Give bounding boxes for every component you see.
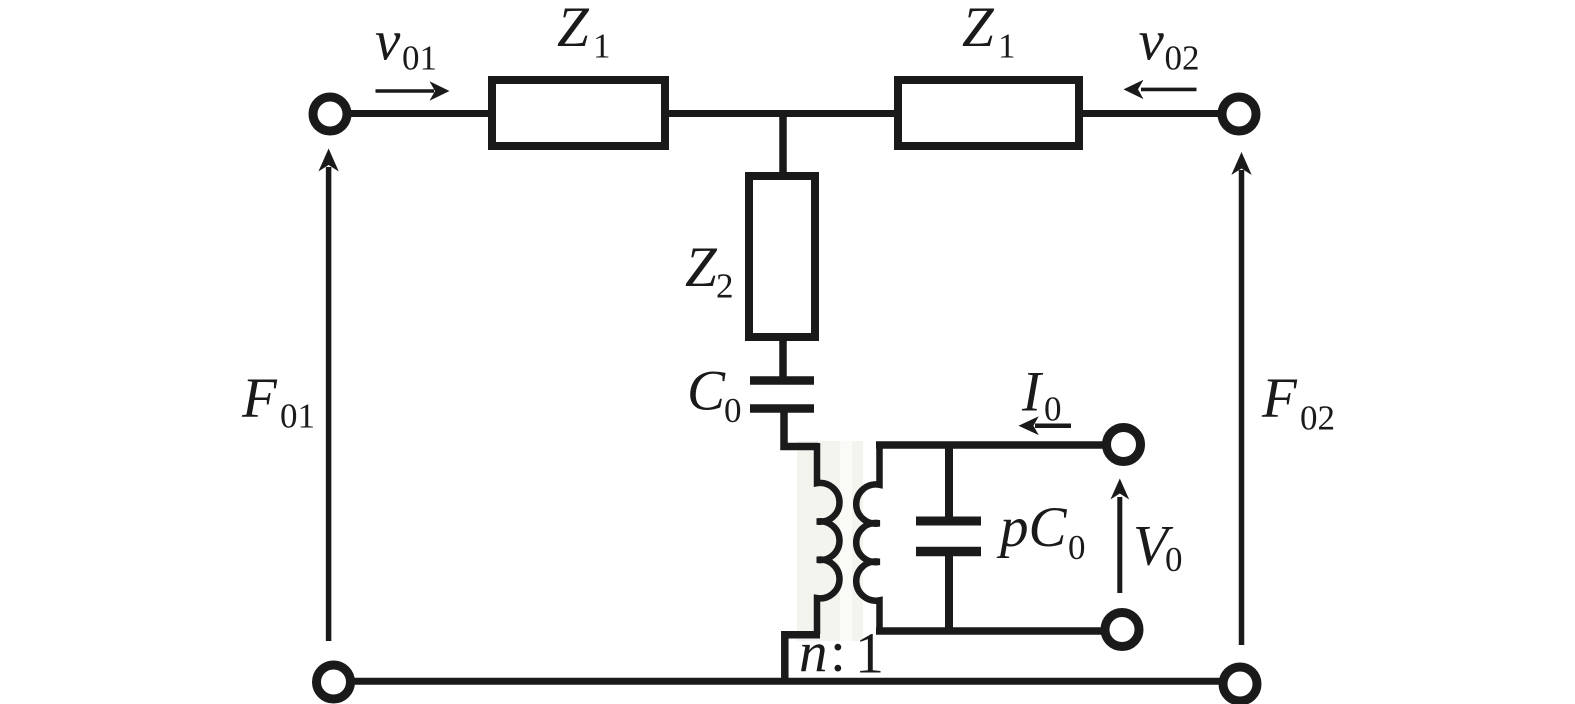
svg-text:C: C: [687, 360, 726, 423]
capacitor pC0 plates: [916, 517, 981, 526]
terminal port1 top: [313, 97, 347, 131]
wire transformer bottom-left leg: [785, 635, 820, 681]
wire C0 to transformer: [784, 406, 818, 447]
terminal port2 top: [1222, 97, 1256, 131]
wire secondary top: [876, 441, 1103, 449]
wire junction to Z2: [779, 114, 787, 179]
arrow v02: [1141, 88, 1197, 92]
svg-text:Z: Z: [557, 0, 590, 59]
svg-text:1: 1: [855, 621, 884, 686]
svg-text:n: n: [799, 622, 828, 685]
svg-text:F: F: [1261, 367, 1298, 430]
svg-text:1: 1: [593, 27, 611, 66]
resistor Z2 box: [749, 176, 815, 337]
wire top-left: [348, 110, 500, 117]
svg-text:0: 0: [724, 391, 742, 430]
svg-text:01: 01: [402, 38, 437, 77]
svg-text:1: 1: [998, 27, 1016, 66]
svg-text:v: v: [375, 9, 401, 72]
svg-text:Z: Z: [962, 0, 995, 59]
arrow F02: [1239, 170, 1245, 645]
svg-text:Z: Z: [685, 236, 718, 299]
svg-text:01: 01: [280, 397, 315, 436]
arrow V0: [1117, 497, 1122, 593]
svg-text:02: 02: [1300, 399, 1335, 438]
capacitor C0 plates: [750, 376, 814, 385]
wire top-right: [1075, 110, 1222, 117]
svg-text::: :: [830, 621, 846, 684]
terminal port1 bottom: [317, 665, 351, 699]
svg-text:02: 02: [1165, 38, 1200, 77]
transformer U1 primary winding: [817, 443, 840, 634]
transformer U1 secondary winding: [856, 443, 879, 631]
svg-text:0: 0: [1165, 540, 1183, 579]
arrow F01: [326, 167, 332, 641]
svg-text:pC: pC: [996, 496, 1068, 559]
resistor Z1 right box: [898, 80, 1079, 146]
terminal port2 bottom: [1223, 667, 1257, 701]
transformer core shading: [797, 441, 863, 641]
arrow I0: [1035, 423, 1071, 428]
wire bottom bus: [350, 678, 1221, 685]
svg-text:I: I: [1021, 360, 1044, 423]
wire top-middle: [661, 110, 902, 117]
svg-text:F: F: [241, 367, 278, 430]
arrow v01: [376, 89, 435, 93]
wire pC0 lower stub: [945, 555, 953, 631]
terminal I0 top: [1107, 428, 1141, 462]
wire pC0 upper stub: [945, 442, 953, 517]
terminal V0 bottom: [1105, 613, 1139, 647]
svg-text:v: v: [1139, 9, 1165, 72]
svg-text:2: 2: [716, 267, 734, 306]
wire Z2 to C0: [779, 335, 787, 378]
svg-text:0: 0: [1044, 390, 1062, 429]
resistor Z1 left box: [492, 80, 665, 146]
wire secondary bottom: [876, 627, 1102, 635]
svg-text:0: 0: [1068, 528, 1086, 567]
